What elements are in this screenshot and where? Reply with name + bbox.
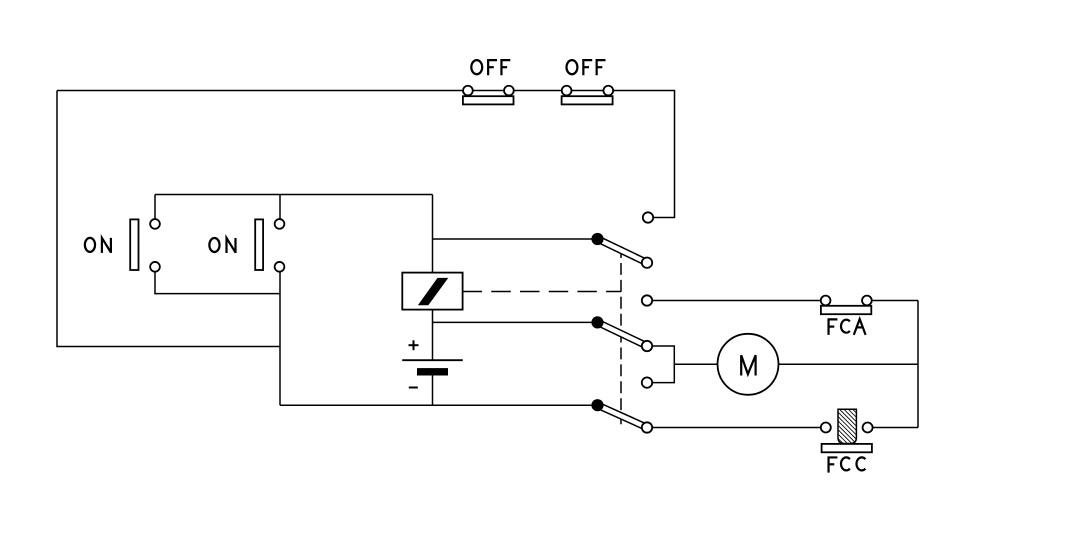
pushbutton OFF2	[562, 86, 614, 105]
wire coil vertical upper	[432, 195, 434, 273]
terminal bracket bottom	[642, 377, 652, 387]
wire ON1 bottom link	[155, 267, 280, 294]
contact 2 common dot	[591, 316, 603, 328]
terminal from OFF chain	[643, 212, 653, 222]
limit switch FCC	[821, 409, 873, 452]
contact 3 tip terminal	[642, 422, 652, 432]
wire motor bracket	[647, 346, 674, 383]
wire left rail	[57, 91, 280, 347]
pushbutton OFF1	[463, 86, 514, 105]
wire ON1 top drop	[154, 195, 156, 224]
wire motor to right rail	[779, 363, 919, 365]
contact 1 common dot	[591, 233, 603, 245]
wire node K2 to contact 2	[433, 321, 598, 323]
motor M	[718, 334, 779, 395]
wire bracket to motor	[674, 363, 717, 365]
wire bottom bus	[280, 404, 598, 406]
label FCA	[829, 319, 866, 335]
terminal FCA row	[642, 295, 652, 305]
limit switch FCA	[821, 296, 872, 315]
label OFF1	[471, 60, 510, 75]
wire coil to battery	[432, 310, 434, 361]
wire FCC to right rail	[868, 427, 918, 429]
contact lever 1	[596, 236, 648, 265]
wire FCA to right rail	[867, 300, 918, 302]
wire ON2 bottom vertical	[279, 267, 281, 405]
wire contact 3 to FCC	[647, 427, 826, 429]
wire right rail	[917, 301, 919, 428]
pushbutton ON2	[255, 219, 284, 272]
wire ON2 top drop	[279, 195, 281, 224]
contact lever 2	[596, 320, 648, 349]
contact lever 3	[596, 402, 648, 430]
relay coil K	[402, 273, 462, 310]
label ON2	[209, 238, 235, 253]
pushbutton ON1	[130, 219, 160, 272]
dashed link coil to contacts	[463, 291, 621, 293]
wire contact row to FCA	[647, 300, 826, 302]
contact 1 tip terminal	[642, 258, 652, 268]
wire node K1 to contact 1	[433, 238, 598, 240]
wire battery to bottom bus	[432, 376, 434, 406]
wire ON top bus	[155, 194, 433, 196]
contact 3 common dot	[591, 399, 603, 411]
label ON1	[85, 238, 111, 253]
label FCC	[829, 457, 866, 472]
contact 2 tip terminal	[642, 341, 652, 351]
label OFF2	[567, 60, 606, 75]
dashed link contacts vertical	[620, 246, 622, 424]
battery B1	[402, 340, 463, 387]
wire top OFF chain	[57, 91, 675, 218]
